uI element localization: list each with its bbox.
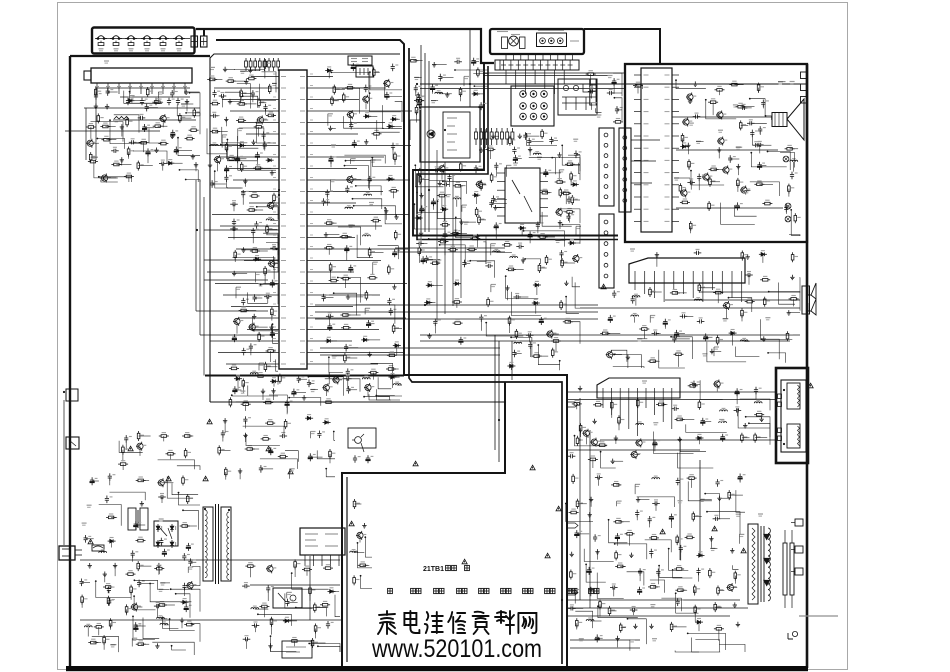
label bbox=[351, 159, 356, 161]
wire signal section boundary outer bbox=[216, 40, 567, 667]
IC U202 AN5265 bbox=[629, 258, 745, 283]
node T601 pri bbox=[204, 508, 206, 510]
AV jack unit CN502 bbox=[537, 33, 567, 47]
resistor R114 bbox=[97, 113, 104, 123]
capacitor C172 bbox=[346, 368, 354, 376]
resistor R245 bbox=[708, 201, 715, 211]
warning mark W12 bbox=[808, 383, 813, 388]
warning mark W10 bbox=[349, 521, 354, 526]
diode D125 bbox=[393, 342, 401, 347]
wire supply mid bbox=[80, 559, 340, 561]
diode D133 bbox=[680, 143, 688, 148]
wire U101 right pin 38 bbox=[315, 202, 356, 204]
resistor R279 bbox=[754, 433, 761, 443]
wire net IC right field 29 bbox=[370, 72, 402, 90]
remote receiver unit bbox=[420, 107, 480, 162]
capacitor C160 bbox=[345, 185, 353, 193]
node J13 bbox=[278, 189, 280, 191]
tuner T100 antenna tab bbox=[84, 71, 91, 80]
wire net IC left field upper 9 bbox=[237, 84, 251, 109]
ground bbox=[655, 252, 659, 257]
wire net deflection section 14 bbox=[746, 417, 770, 438]
wire net sound section 3 bbox=[769, 292, 800, 311]
resistor R171 bbox=[371, 217, 381, 222]
resistor R222 bbox=[545, 255, 552, 265]
node yoke B bbox=[783, 443, 785, 445]
transistor Q145 bbox=[546, 330, 556, 339]
wire net power left upper 1 bbox=[177, 466, 200, 470]
connector CN603 bbox=[66, 389, 78, 401]
warning mark W8 bbox=[545, 553, 550, 558]
wire net flyback section 5 bbox=[675, 651, 699, 653]
capacitor C152 bbox=[364, 85, 372, 93]
wire net sound section 7 bbox=[799, 278, 802, 293]
label bbox=[365, 308, 370, 310]
label bbox=[592, 103, 597, 105]
label bbox=[696, 141, 701, 143]
diode D114 bbox=[266, 157, 274, 162]
resistor R261 bbox=[716, 335, 723, 345]
wire audio lower rail bbox=[676, 207, 783, 209]
diode D136 bbox=[696, 434, 704, 439]
capacitor C293 bbox=[280, 433, 288, 439]
resistor R282 bbox=[611, 482, 621, 487]
ground bbox=[269, 325, 273, 330]
capacitor C130 bbox=[255, 152, 263, 160]
wire tuner pin1 drop bbox=[95, 88, 97, 160]
wire video bus 1 bbox=[436, 150, 438, 322]
resistor R206 bbox=[448, 246, 458, 251]
ground bbox=[384, 208, 388, 213]
wire net deflection section 1 bbox=[678, 453, 714, 468]
transistor Q111 bbox=[159, 114, 169, 123]
resistor R147 bbox=[240, 162, 247, 172]
resistor R325 bbox=[137, 431, 144, 441]
wire net audio box 14 bbox=[734, 205, 756, 216]
resistor R185 bbox=[344, 353, 351, 363]
node yoke A bbox=[783, 389, 785, 391]
wire net flyback section 3 bbox=[659, 566, 682, 578]
wire net power mid lower 1 bbox=[296, 608, 327, 617]
flyback HV winding bbox=[768, 528, 770, 601]
resistor R328 bbox=[122, 445, 129, 455]
capacitor C242 bbox=[735, 388, 743, 396]
wire U101 right pin 52 bbox=[315, 363, 378, 365]
resistor R234 bbox=[737, 178, 744, 188]
inductor L130 bbox=[754, 400, 762, 403]
transistor Q203 bbox=[682, 118, 692, 127]
resistor R219 bbox=[565, 209, 575, 214]
capacitor C314 bbox=[292, 389, 300, 397]
capacitor C162 bbox=[345, 245, 353, 253]
wire net deflection section 2 bbox=[680, 438, 706, 452]
wire net power left 11 bbox=[163, 616, 179, 628]
ground bbox=[558, 220, 562, 225]
flyback primary winding bbox=[748, 524, 758, 604]
wire net eeprom area 2 bbox=[473, 74, 488, 96]
connector CN602a bbox=[191, 36, 198, 47]
resistor R179 bbox=[341, 275, 351, 280]
resistor R274 bbox=[579, 423, 586, 433]
capacitor C124 bbox=[251, 90, 259, 98]
IC U202 pins bbox=[635, 271, 742, 302]
resistor R278 bbox=[741, 433, 748, 443]
ground bbox=[427, 333, 431, 338]
resistor R344 bbox=[245, 563, 255, 568]
inductor L114 bbox=[364, 193, 372, 196]
resistor R332 bbox=[229, 397, 236, 407]
resistor R319 bbox=[81, 595, 88, 605]
connector CN102 pins bbox=[501, 60, 573, 70]
label bbox=[238, 129, 243, 131]
resistor R316 bbox=[136, 537, 146, 542]
resistor R192 bbox=[450, 230, 460, 235]
capacitor C302 bbox=[326, 621, 334, 629]
RCA jack J2 bbox=[540, 38, 546, 44]
ground bbox=[736, 164, 740, 169]
capacitor C241 bbox=[692, 381, 700, 389]
wire net power mid lower 7 bbox=[285, 593, 313, 608]
wire net IC right field 6 bbox=[354, 206, 396, 217]
label bbox=[160, 583, 165, 585]
ground bbox=[328, 126, 332, 131]
capacitor C232 bbox=[745, 272, 753, 278]
capacitor C431 bbox=[353, 455, 361, 463]
ground bbox=[445, 92, 449, 97]
resistor R154 bbox=[234, 250, 241, 260]
capacitor C252 bbox=[716, 479, 724, 487]
capacitor C149 bbox=[233, 386, 241, 394]
capacitor C249 bbox=[568, 453, 576, 459]
ground bbox=[88, 563, 92, 568]
diode D111 bbox=[126, 97, 134, 102]
wire net center section 1 bbox=[486, 323, 523, 336]
label bbox=[328, 114, 333, 116]
capacitor C123 bbox=[219, 93, 227, 99]
ground bbox=[518, 134, 522, 139]
wire video bus 4 bbox=[460, 186, 462, 298]
transistor Q130 bbox=[723, 301, 733, 310]
wire U101 right pin 39 bbox=[315, 214, 409, 216]
label bbox=[689, 123, 694, 125]
AV jack G bbox=[541, 103, 548, 110]
resistor R236 bbox=[785, 145, 795, 150]
wire video bus 3 bbox=[452, 174, 454, 306]
capacitor C213 bbox=[612, 78, 620, 86]
transistor Q118 bbox=[233, 317, 243, 326]
wire net flyback section 17 bbox=[628, 619, 647, 644]
wire net AC input area 3 bbox=[176, 594, 190, 618]
wire net IF section B 18 bbox=[563, 225, 581, 244]
wire net eeprom area 3 bbox=[455, 70, 488, 89]
capacitor C300 bbox=[285, 599, 293, 607]
capacitor C125 bbox=[263, 104, 271, 112]
capacitor C104 bbox=[167, 98, 175, 106]
ground bbox=[787, 310, 791, 315]
resistor R275 bbox=[618, 415, 625, 425]
capacitor C282 bbox=[186, 543, 194, 551]
capacitor C230 bbox=[694, 249, 702, 255]
resistor R306 bbox=[714, 602, 721, 612]
resistor R382 bbox=[551, 348, 558, 358]
capacitor C206 bbox=[472, 58, 480, 66]
capacitor C318 bbox=[107, 586, 115, 594]
wire net IF section B 5 bbox=[559, 209, 580, 223]
label bbox=[114, 120, 119, 122]
capacitor C291 bbox=[243, 416, 251, 424]
wire U101 left pin 16 bbox=[241, 191, 271, 193]
wire net IC right field 9 bbox=[385, 81, 403, 96]
wire net center section 2 bbox=[506, 276, 539, 298]
wire net sound section 15 bbox=[614, 355, 641, 369]
warning mark W9 bbox=[556, 506, 561, 511]
label bbox=[573, 139, 578, 141]
label bbox=[369, 203, 374, 205]
resistor R379 bbox=[515, 329, 522, 339]
ground bbox=[194, 162, 198, 167]
capacitor C207 bbox=[438, 74, 446, 82]
capacitor C135 bbox=[230, 201, 238, 207]
switch SW603 bbox=[125, 36, 137, 40]
diode D118 bbox=[325, 67, 333, 72]
resistor R189 bbox=[417, 92, 424, 102]
capacitor C175 bbox=[479, 102, 487, 110]
wire U101 right pin 49 bbox=[315, 329, 379, 331]
capacitor C255 bbox=[635, 510, 643, 518]
resistor R201 bbox=[453, 182, 463, 187]
resistor R244 bbox=[680, 199, 690, 204]
wire net power mid lower 3 bbox=[292, 573, 329, 589]
label bbox=[290, 469, 295, 471]
capacitor C201 bbox=[567, 196, 575, 204]
capacitor C243 bbox=[754, 387, 762, 395]
IC U401 label bbox=[642, 381, 647, 383]
label bbox=[159, 519, 164, 521]
label bbox=[650, 605, 655, 607]
capacitor C269 bbox=[610, 584, 618, 590]
bridge diode D604 bbox=[170, 540, 175, 548]
capacitor C299 bbox=[266, 585, 274, 593]
transistor Q137 bbox=[726, 583, 736, 592]
diode D135 bbox=[729, 330, 737, 335]
label bbox=[637, 339, 642, 341]
capacitor C224 bbox=[697, 174, 705, 182]
resistor R331 bbox=[118, 461, 128, 466]
resistor R141 bbox=[236, 117, 246, 122]
wire yoke feed 3 bbox=[600, 439, 776, 441]
capacitor C101 bbox=[126, 98, 134, 106]
wire net power mid upper 5 bbox=[246, 435, 280, 446]
wire net IC right field 7 bbox=[346, 161, 371, 182]
wire U101 left pin 11 bbox=[236, 248, 271, 250]
capacitor C305 bbox=[485, 262, 493, 268]
wire net deflection section 12 bbox=[654, 432, 694, 454]
capacitor C115 bbox=[142, 124, 150, 132]
wire right drop 2 bbox=[589, 430, 591, 608]
capacitor C267 bbox=[696, 568, 704, 576]
inductor L125 bbox=[694, 298, 702, 301]
resistor R289 bbox=[625, 530, 635, 535]
switch SW604 bbox=[141, 36, 153, 40]
wire net tuner area 14 bbox=[130, 92, 156, 104]
wire net deflection section 10 bbox=[575, 436, 607, 446]
capacitor C157 bbox=[329, 156, 337, 164]
capacitor C265 bbox=[638, 568, 646, 576]
resistor R129 bbox=[111, 161, 121, 166]
label bbox=[506, 165, 511, 167]
capacitor C184 bbox=[443, 231, 451, 239]
resistor R128 bbox=[88, 158, 98, 163]
inductor L134 bbox=[84, 624, 92, 627]
inductor L138 bbox=[99, 550, 107, 553]
wire net IC left field upper 13 bbox=[227, 140, 257, 161]
wire left link 2 bbox=[196, 310, 268, 312]
inductor L120 bbox=[533, 152, 541, 155]
resistor R116 bbox=[179, 113, 186, 123]
label bbox=[332, 356, 337, 358]
resistor R151 bbox=[247, 207, 257, 212]
wire net eeprom area 1 bbox=[474, 86, 488, 96]
ground bbox=[686, 143, 690, 148]
capacitor C307 bbox=[433, 319, 441, 327]
inductor L140 bbox=[350, 550, 358, 553]
resistor R217 bbox=[559, 188, 566, 198]
label bbox=[222, 135, 227, 137]
resistor R173 bbox=[394, 230, 401, 240]
diode D120 bbox=[390, 116, 398, 121]
node J1 bbox=[416, 83, 418, 85]
resistor R175 bbox=[368, 247, 375, 257]
ground bbox=[140, 501, 144, 506]
resistor R364 bbox=[508, 316, 515, 326]
AC cord box bbox=[282, 641, 312, 658]
transistor Q138 bbox=[157, 478, 167, 487]
resistor R381 bbox=[532, 353, 542, 358]
transistor Q142 bbox=[332, 375, 342, 384]
capacitor C111 bbox=[106, 88, 114, 96]
resistor R200 bbox=[419, 174, 426, 184]
ground bbox=[592, 419, 596, 424]
ground bbox=[364, 139, 368, 144]
connector screen pad 1 bbox=[795, 519, 803, 526]
ground bbox=[746, 254, 750, 259]
ground bbox=[184, 89, 188, 94]
label bbox=[158, 92, 163, 94]
resistor R311 bbox=[136, 477, 146, 482]
label bbox=[491, 244, 496, 246]
wire net power mid lower 2 bbox=[271, 636, 297, 652]
capacitor C200 bbox=[494, 222, 502, 230]
resistor R160 bbox=[229, 365, 239, 370]
capacitor C245 bbox=[734, 407, 742, 413]
capacitor C315 bbox=[131, 550, 139, 558]
wire net IF section B 1 bbox=[524, 231, 565, 247]
wire supply low 2 bbox=[80, 619, 342, 621]
capacitor C159 bbox=[325, 190, 333, 198]
capacitor C244 bbox=[671, 405, 679, 411]
wire net power mid lower 8 bbox=[335, 595, 340, 617]
label bbox=[739, 534, 744, 536]
connector screen pad 3 bbox=[795, 568, 803, 575]
inductor L136 bbox=[251, 606, 259, 609]
AV jack V bbox=[541, 91, 548, 98]
diode D143 bbox=[328, 588, 336, 593]
wire U101 right pin 45 bbox=[315, 283, 407, 285]
resistor R350 bbox=[314, 603, 321, 613]
capacitor C432 bbox=[366, 455, 374, 463]
switch SW605 bbox=[157, 36, 169, 40]
diode D139 bbox=[108, 538, 116, 543]
wire net IC right field 23 bbox=[383, 105, 403, 129]
capacitor C231 bbox=[663, 319, 671, 327]
label bbox=[714, 347, 719, 349]
resistor R124 bbox=[158, 140, 168, 145]
ground bbox=[528, 147, 532, 152]
resistor R214 bbox=[555, 179, 565, 184]
capacitor C196 bbox=[491, 196, 499, 204]
wire U101 left pin 3 bbox=[210, 340, 271, 342]
main IC U101 pin numbers bbox=[273, 74, 313, 362]
wire tuner rail C bbox=[113, 119, 196, 121]
label bbox=[210, 67, 215, 69]
wire net audio box 8 bbox=[721, 203, 755, 225]
ground bbox=[733, 602, 737, 607]
wire net under IC strip 2 bbox=[364, 397, 390, 400]
capacitor C148 bbox=[249, 343, 257, 351]
wire net power mid lower 6 bbox=[309, 644, 340, 653]
wire net tuner area 8 bbox=[99, 177, 132, 182]
ground bbox=[730, 548, 734, 553]
wire lower bus 1 bbox=[494, 335, 496, 450]
inductor L129 bbox=[720, 408, 728, 411]
wire net IC left field lower 7 bbox=[253, 317, 278, 331]
label bbox=[100, 178, 105, 180]
resistor R307 bbox=[576, 618, 583, 628]
wire net IF section B 17 bbox=[542, 212, 572, 226]
inductor L124 bbox=[632, 294, 640, 297]
capacitor C176 bbox=[424, 255, 432, 263]
wire net IC left field upper 8 bbox=[215, 171, 242, 188]
wire net audio box 2 bbox=[780, 153, 795, 168]
resistor R163 bbox=[333, 85, 340, 95]
wire U101 left pin 6 bbox=[231, 306, 271, 308]
capacitor C216 bbox=[740, 104, 748, 110]
resistor R327 bbox=[182, 433, 192, 438]
wire net IF section A 8 bbox=[417, 193, 442, 213]
capacitor C239 bbox=[672, 335, 680, 343]
ground bbox=[578, 386, 582, 391]
resistor R127 bbox=[127, 147, 134, 157]
ground bbox=[419, 193, 423, 198]
resistor R113 bbox=[152, 99, 162, 104]
wire U101 left pin 17 bbox=[233, 179, 271, 181]
wire net flyback section 25 bbox=[598, 606, 638, 617]
resistor R334 bbox=[263, 399, 273, 404]
wire net under IC strip 1 bbox=[376, 389, 400, 400]
capacitor C195 bbox=[513, 155, 521, 163]
FB tag 3 bbox=[801, 97, 808, 104]
transistor Q123 bbox=[346, 175, 356, 184]
resistor R130 bbox=[137, 161, 144, 171]
wire AV rail B bbox=[483, 75, 610, 77]
switch SW602 bbox=[110, 36, 122, 40]
node J5 bbox=[469, 83, 471, 85]
ground bbox=[252, 314, 256, 319]
wire net flyback section 23 bbox=[661, 598, 681, 611]
flyback T444 label bbox=[758, 514, 763, 516]
wire net top right strip 3 bbox=[613, 73, 622, 96]
wire U101 right pin 30 bbox=[315, 110, 412, 112]
